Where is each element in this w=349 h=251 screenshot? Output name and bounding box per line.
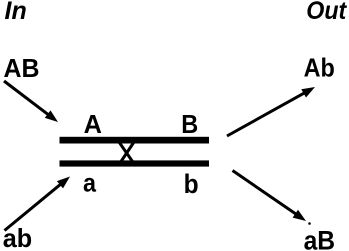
arrow bottom bar to aB	[233, 171, 307, 222]
label aB	[304, 225, 336, 251]
label In	[5, 0, 27, 25]
label Out	[306, 0, 348, 25]
top chromatid bar AB	[60, 137, 210, 144]
label A	[84, 109, 103, 139]
svg-text:A: A	[84, 109, 103, 139]
svg-text:Out: Out	[306, 0, 348, 25]
label a	[83, 167, 96, 197]
label Ab	[304, 53, 335, 83]
crossover X	[119, 142, 134, 162]
label ab	[3, 223, 32, 251]
label b	[184, 169, 199, 199]
svg-text:b: b	[184, 169, 199, 199]
svg-text:aB: aB	[304, 225, 336, 251]
svg-text:a: a	[83, 167, 96, 197]
svg-text:Ab: Ab	[304, 53, 335, 83]
svg-text:AB: AB	[4, 53, 40, 83]
svg-text:In: In	[5, 0, 27, 25]
bottom chromatid bar ab	[60, 160, 210, 166]
arrow top bar to Ab	[227, 87, 315, 136]
speck near aB arrowhead	[308, 222, 311, 225]
arrow AB to top bar	[4, 81, 58, 122]
arrow ab to bottom bar	[5, 177, 71, 231]
svg-text:B: B	[181, 109, 198, 139]
label B	[181, 109, 198, 139]
label AB	[4, 53, 40, 83]
